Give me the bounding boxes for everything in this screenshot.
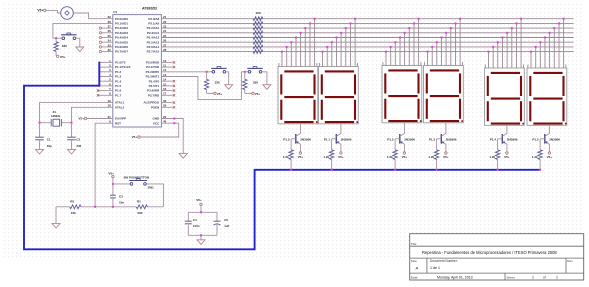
resistor 1.2k (Q4 base) [428,139,438,170]
svg-text:A: A [416,266,419,271]
svg-text:2N3906: 2N3906 [341,138,352,142]
no-connect ALE PSEN [161,101,175,108]
svg-text:ALE/PROG: ALE/PROG [144,101,160,105]
svg-text:P3.5/T1: P3.5/T1 [149,84,160,88]
svg-text:12MHz: 12MHz [51,114,61,118]
transistor Q5 2N3906 [502,125,518,151]
svg-text:1.2k: 1.2k [387,155,393,159]
svg-text:P1.3: P1.3 [429,138,436,142]
node XTAL2/C2 [71,122,73,124]
U1 pin name labels [115,17,160,126]
svg-text:1.2k: 1.2k [489,155,495,159]
power V5+ (INT0 resistor) [214,92,223,96]
resistor 330 pull-up (INT1) [243,72,259,94]
transistor Q3 2N3906 [400,123,416,152]
wire P3.2/INT0 to button [161,71,212,73]
resistor network 100 (8x series) [253,11,263,53]
svg-text:V5+: V5+ [402,155,408,159]
svg-text:2N3906: 2N3906 [300,138,311,142]
wire V5+ to speaker [46,10,61,13]
ground (P0.1 button) [76,47,84,52]
svg-text:P1.4: P1.4 [490,138,497,142]
svg-text:V5+: V5+ [255,92,261,96]
svg-text:1 de 1: 1 de 1 [430,266,440,270]
svg-text:P0.2/AD2: P0.2/AD2 [115,26,128,30]
power V5+ (Q4 emitter) [443,152,449,159]
svg-text:Date:: Date: [411,276,419,280]
svg-text:P0.4/AD4: P0.4/AD4 [115,36,128,40]
node bus entry corner [98,85,100,87]
svg-text:1: 1 [532,276,534,280]
power V5+ (Q6 emitter) [547,152,553,159]
svg-text:Size: Size [411,259,417,263]
svg-text:P1.6: P1.6 [115,89,122,93]
svg-text:R2: R2 [70,199,74,203]
svg-text:V5+: V5+ [196,198,202,202]
power V5+ (reset) [108,171,114,184]
node RST/rail [94,206,96,208]
svg-text:P2.1/A9: P2.1/A9 [148,22,159,26]
node bus tap Q1 [290,169,292,171]
ground (C2) [68,149,76,154]
wire button INT1 to ground [262,72,267,85]
svg-text:P0.0/AD0: P0.0/AD0 [115,17,128,21]
7-segment display DS6 [527,68,567,125]
capacitor C4 100n [185,218,200,228]
svg-text:100n: 100n [193,224,200,228]
P0.2-P0.7 open pin stubs [99,27,113,53]
U1 pin numbers [107,15,166,124]
svg-text:V5+: V5+ [338,155,344,159]
svg-text:Document Number:: Document Number: [430,259,458,263]
wire XTAL2 [61,107,112,122]
resistor 1.2k (Q5 base) [489,139,499,170]
resistor 1.2k (Q3 base) [387,139,397,170]
svg-text:P0.5/AD5: P0.5/AD5 [115,40,128,44]
power V5+ (Q2 emitter) [338,152,344,159]
wire GND pin 20 to ground [161,118,183,154]
wire base P1.5 [532,138,544,142]
svg-text:P1.2: P1.2 [387,138,394,142]
wire P3.3/INT1 to button [161,72,248,100]
svg-text:EA/VPP: EA/VPP [115,117,126,121]
svg-text:10n: 10n [119,201,124,205]
ground (INT0 button) [225,85,233,90]
svg-text:U1: U1 [113,10,117,14]
pushbutton SW1 SW PUSHBUTTON [113,175,154,189]
node decoupling top [200,211,202,213]
svg-text:V5+: V5+ [78,117,84,121]
svg-text:C5: C5 [224,218,228,222]
svg-text:C1: C1 [47,138,51,142]
svg-text:330: 330 [215,80,220,84]
wires DS1 segment pins to lines [279,19,317,67]
svg-text:2N3906: 2N3906 [404,138,415,142]
svg-text:XTAL1: XTAL1 [115,101,125,105]
svg-text:P2.5/A13: P2.5/A13 [147,40,160,44]
node bus tap Q2 [331,169,333,171]
transistor Q6 2N3906 [545,125,561,151]
7-segment display DS2 [319,67,359,124]
node bus tap Q3 [394,169,396,171]
transistor Q1 2N3906 [296,124,312,152]
crystal X1 12MHz [51,110,61,126]
svg-text:330: 330 [253,80,258,84]
svg-text:2N3906: 2N3906 [507,138,518,142]
power V5+ (below resistor) [57,55,66,59]
svg-text:P1.4: P1.4 [115,79,122,83]
power V5+ (Q3 emitter) [402,152,408,159]
node DS5 line junctions [488,18,523,53]
wires DS2 segment pins to lines [319,19,357,67]
wire base P1.0 [283,138,295,142]
speaker LS1 [61,7,74,20]
7-segment display DS3 [382,66,422,123]
title block [410,234,584,280]
svg-text:P1.7: P1.7 [115,93,122,97]
svg-text:R1: R1 [137,199,141,203]
svg-text:330: 330 [76,144,81,148]
ground (U1 GND) [179,154,187,159]
pushbutton S1 (P0.1) [61,33,77,40]
7-segment display DS5 [485,68,525,125]
svg-text:P2.7/A15: P2.7/A15 [147,50,160,54]
transistor Q4 2N3906 [441,123,457,152]
wire button to ground [76,38,80,47]
svg-text:P1.2: P1.2 [115,70,122,74]
svg-text:1: 1 [556,276,558,280]
svg-text:1.2k: 1.2k [283,155,289,159]
svg-text:Title: Title [411,242,417,246]
power V5+ (Q1 emitter) [298,152,304,159]
svg-text:AT89S52: AT89S52 [142,6,157,10]
svg-text:VCC: VCC [153,121,160,125]
svg-text:P3.1/TXD: P3.1/TXD [146,65,160,69]
svg-text:P1.0: P1.0 [283,138,290,142]
ground (decoupling) [197,240,205,245]
svg-text:P2.6/A14: P2.6/A14 [147,45,160,49]
svg-text:V5+: V5+ [60,55,66,59]
wire base P1.1 [324,138,336,142]
wires DS4 segment pins to lines [424,19,462,66]
node DS3 line junctions [385,18,420,53]
no-connect P3.0 P3.1 P3.4-P3.7 [161,61,175,96]
node bus tap Q4 [436,169,438,171]
svg-text:C3: C3 [119,195,123,199]
resistor 330 pull-up (INT0) [204,72,220,94]
svg-text:330: 330 [137,211,142,215]
svg-text:Repentina - Fundamentos de Mic: Repentina - Fundamentos de Microprocesad… [422,250,557,255]
svg-text:V5+: V5+ [504,155,510,159]
svg-text:100: 100 [255,11,260,15]
node XTAL1/C1 [39,122,41,124]
wire RST net [95,123,113,207]
svg-text:P0.6/AD6: P0.6/AD6 [115,45,128,49]
svg-text:C4: C4 [193,218,197,222]
svg-text:SW1: SW1 [148,185,155,189]
svg-text:P2.4/A12: P2.4/A12 [147,36,160,40]
svg-text:P1.0/T2: P1.0/T2 [115,61,126,65]
svg-text:P3.0/RXD: P3.0/RXD [146,61,160,65]
node junction P0.1/resistor [55,37,57,39]
svg-text:P0.1/AD1: P0.1/AD1 [115,22,128,26]
node DS6 line junctions [530,18,565,53]
7-segment display DS1 [278,67,318,124]
node DS2 line junctions [322,18,357,53]
svg-text:V5+: V5+ [217,92,223,96]
node junction INT0 [206,71,208,73]
svg-text:V5+: V5+ [443,155,449,159]
svg-text:330: 330 [62,44,67,48]
svg-text:1.2k: 1.2k [428,155,434,159]
wire speaker to P0.0 pin 39 [73,13,112,19]
node junction INT1 [244,71,246,73]
pushbutton (INT0) [211,67,226,74]
svg-text:Rev: Rev [567,259,573,263]
svg-text:P1.3: P1.3 [115,75,122,79]
ground (R2) [52,223,60,228]
capacitor C5 1uF [214,218,230,228]
wires DS3 segment pins to lines [383,19,421,66]
svg-text:P0.7/AD7: P0.7/AD7 [115,50,128,54]
svg-text:V5+: V5+ [108,171,114,175]
svg-text:1.2k: 1.2k [323,155,329,159]
svg-text:P3.3/INT1: P3.3/INT1 [146,75,160,79]
svg-text:SW PUSHBUTTON: SW PUSHBUTTON [124,175,149,179]
svg-text:P3.2/INT0: P3.2/INT0 [146,70,160,74]
power V5+ (VCC) [132,135,140,139]
svg-text:P0.3/AD3: P0.3/AD3 [115,31,128,35]
node decoupling bottom [200,234,202,236]
resistor 330 pull-up (P0.1) [54,38,67,56]
wire P0.1 pin 38 to key circuit [53,23,113,38]
ground (INT1 button) [263,85,271,90]
svg-text:33p: 33p [47,144,52,148]
wire decoupling rails [188,212,217,240]
capacitor C1 33p [35,123,52,150]
wire SW1 to R1 [146,184,163,207]
wire base P1.2 [387,138,399,142]
wire RST bottom rail [56,207,163,224]
svg-text:GND: GND [153,117,161,121]
node DS1 line junctions [281,18,316,53]
power V5+ (decoupling) [196,198,202,212]
7-segment display DS4 [424,66,464,123]
transistor Q2 2N3906 [336,124,352,152]
wire base P1.4 [490,138,502,142]
resistor 1.2k (Q1 base) [283,139,293,170]
wire P2 segment lines (8 horizontal) [161,19,573,52]
node C3 top / V5+ [112,183,114,185]
svg-text:P1.1: P1.1 [324,138,331,142]
svg-text:2N3906: 2N3906 [549,138,560,142]
resistor 1.2k (Q6 base) [532,139,542,170]
svg-text:10k: 10k [71,211,76,215]
svg-text:V5+: V5+ [132,135,138,139]
wires DS6 segment pins to lines [528,19,566,68]
power V5+ (speaker feed) [37,9,46,13]
svg-text:of: of [543,276,546,280]
wire base P1.3 [429,138,441,142]
IC U1 AT89S52 microcontroller body [113,6,162,127]
svg-text:P2.3/A11: P2.3/A11 [147,31,160,35]
svg-text:Monday, April 01, 2013: Monday, April 01, 2013 [437,276,473,280]
bus (thick blue P1 digit-select bus) [24,62,540,250]
node C3 bottom [112,206,114,208]
capacitor C3 10n [110,184,124,207]
svg-text:XTAL2: XTAL2 [115,105,125,109]
power V5+ to EA/VPP pin 31 [78,117,112,121]
svg-text:V5+: V5+ [547,155,553,159]
resistor R1 330 [136,199,147,215]
svg-text:Sheet: Sheet [507,276,515,280]
svg-text:2N3906: 2N3906 [446,138,457,142]
svg-text:PSEN: PSEN [151,105,159,109]
no-connect P1.6 P1.7 [97,89,113,96]
svg-text:P1.5: P1.5 [115,84,122,88]
svg-text:V5+: V5+ [37,9,43,13]
svg-text:V5+: V5+ [298,155,304,159]
svg-text:P1.5: P1.5 [532,138,539,142]
node bus tap Q6 [539,169,541,171]
ground (C1) [36,149,44,154]
svg-text:P3.4/T0: P3.4/T0 [149,79,160,83]
svg-text:P2.2/A10: P2.2/A10 [147,26,160,30]
svg-text:P2.0/A8: P2.0/A8 [148,17,159,21]
wire XTAL1 [40,103,113,123]
resistor R2 10k [70,199,81,215]
node DS4 line junctions [427,18,462,53]
power V5+ (Q5 emitter) [504,152,510,159]
svg-text:P3.6/WR: P3.6/WR [147,89,160,93]
svg-text:1uF: 1uF [224,224,229,228]
svg-text:1.2k: 1.2k [532,155,538,159]
wires P1.0-P1.5 to bus [99,62,113,86]
svg-text:RST: RST [115,121,121,125]
node bus tap Q5 [497,169,499,171]
capacitor C2 330 [67,123,81,150]
pushbutton (INT1) [247,67,262,74]
svg-text:C2: C2 [76,138,80,142]
power V5+ (INT1 resistor) [252,92,261,96]
svg-text:P1.1/T2-EX: P1.1/T2-EX [115,65,131,69]
svg-text:P3.7/RD: P3.7/RD [148,93,160,97]
wire VCC pin 40 to V5+ [140,122,179,137]
wire button INT0 to ground [226,72,229,85]
wires DS5 segment pins to lines [485,19,523,68]
resistor 1.2k (Q2 base) [323,139,333,170]
